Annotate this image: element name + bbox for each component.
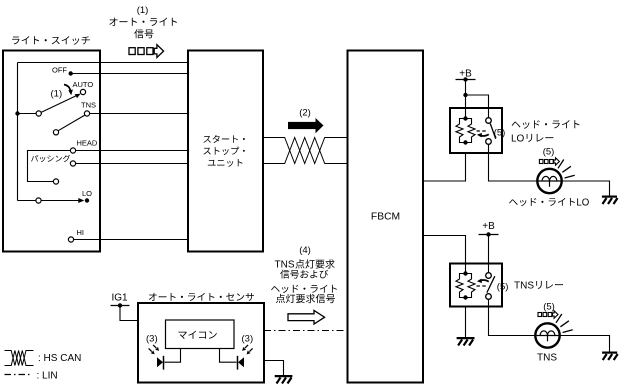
svg-text:(5): (5) [497, 282, 509, 293]
switch wiper arm to AUTO with arrowhead [41, 94, 81, 113]
junction dot +B branch [463, 93, 467, 97]
wire: lamp1 to ground [562, 181, 610, 196]
+B node dot (relay1) [463, 77, 467, 81]
svg-text:(2): (2) [299, 108, 311, 119]
wire: FBCM to relay2 coil [423, 236, 466, 272]
switch wiper pivot contact [36, 111, 41, 116]
svg-text:IG1: IG1 [112, 293, 129, 304]
relay1 switch fixed contact top [486, 118, 492, 124]
left photodiode light arrows [149, 345, 160, 355]
FBCM box [348, 51, 424, 383]
IG1 node dot [118, 303, 122, 307]
left photodiode [157, 356, 164, 370]
relay2 switch arm [487, 276, 495, 292]
svg-text:FBCM: FBCM [371, 212, 400, 223]
relay2 coil top node [463, 271, 467, 275]
label: auto light (o-to raito) [109, 18, 177, 26]
relay2 coil (parallel zigzags) [456, 274, 475, 298]
signal symbol small (lamp1) [539, 158, 559, 165]
contact TNS [84, 111, 89, 116]
contact OFF (closed dot) [69, 71, 73, 75]
lamp1 bulb circle [537, 169, 561, 193]
HS CAN twisted pair line A [263, 138, 348, 164]
passing pivot contact [53, 179, 58, 184]
svg-text:(5): (5) [543, 302, 555, 313]
relay1 coil (parallel zigzags) [456, 119, 475, 143]
svg-text:TNS: TNS [275, 260, 295, 271]
relay1 switch arm [490, 124, 495, 139]
label: auto light sensor [149, 293, 254, 301]
svg-text:HI: HI [77, 228, 85, 237]
label: TNS relay [514, 281, 563, 292]
+B bar (relay2) [479, 234, 499, 236]
wire: IG1 to sensor box [120, 306, 138, 321]
label: signal and (shingou oyobi) [280, 270, 328, 279]
legend LIN line (dash-dot) [5, 374, 32, 376]
wire: bus to wiper pivot [18, 113, 37, 115]
label: stop (sutoppu) line2 [203, 147, 244, 155]
start-stop unit box [188, 51, 263, 252]
lamp2 light rays [556, 314, 573, 333]
svg-text:(3): (3) [242, 334, 254, 345]
contact AUTO [80, 89, 85, 94]
svg-text:LO: LO [511, 134, 525, 145]
svg-text:+B: +B [482, 221, 495, 232]
ground sensor [275, 376, 293, 383]
wire: bus corner to LO pivot [18, 200, 36, 202]
+B bar (relay1) [456, 79, 476, 81]
auto-light signal symbol (squares + arrow) [129, 45, 164, 58]
lamp2 filament [535, 331, 559, 341]
relay2 switch fixed contact bottom [486, 294, 492, 300]
contact passing [70, 161, 75, 166]
wire: OFF to start-stop unit [71, 73, 188, 75]
relay2 box [450, 264, 502, 307]
svg-text:(4): (4) [299, 245, 311, 256]
relay2 switch fixed contact top [486, 273, 492, 279]
hollow arrow (4) [288, 310, 325, 324]
label: headlight (4) line3 [271, 285, 337, 293]
svg-text:(5): (5) [494, 128, 506, 139]
relay1 coil bottom node [463, 140, 467, 144]
wire: HEAD to start-stop unit [76, 150, 188, 152]
wire: lamp2 to ground [560, 336, 610, 352]
wire: passing to start-stop unit [76, 163, 188, 165]
relay1 box [450, 108, 502, 153]
wire: common bus vertical [17, 63, 19, 201]
contact HI [68, 237, 73, 242]
LO pivot contact [36, 198, 41, 203]
label passing (passhingu) [31, 155, 70, 162]
label: unit (yunitto) line3 [208, 159, 243, 167]
ground relay2 [457, 338, 475, 345]
LO wiper arm with arrowhead [41, 198, 84, 203]
HS CAN twisted pair line B [263, 138, 348, 164]
label: headlight LO relay line1 [512, 120, 580, 129]
junction dot on bus [15, 111, 19, 115]
lamp1 light rays [558, 160, 575, 179]
lamp1 filament [537, 176, 561, 186]
contact HEAD [70, 148, 75, 153]
ground lamp2 [602, 353, 618, 360]
label: signal (shingou) [134, 29, 153, 38]
label: light switch (raito suicchi) [12, 36, 90, 45]
svg-text:OFF: OFF [52, 66, 67, 75]
black arrow (2) [288, 118, 324, 133]
second wiper pivot [53, 130, 58, 135]
relay1 actuation curved arrow [477, 133, 489, 138]
label: lighting request signal line4 [276, 294, 335, 303]
svg-text:(1): (1) [137, 5, 149, 16]
wire: common feed to start-stop unit [18, 62, 189, 64]
wire: relay2 coil to ground [465, 307, 467, 338]
label: microcomputer (maikon) [179, 331, 217, 339]
svg-text:: LIN: : LIN [37, 371, 58, 382]
svg-text:LO: LO [576, 198, 589, 209]
svg-text:(1): (1) [51, 89, 63, 100]
svg-text:TNS: TNS [514, 281, 534, 292]
wire: TNS to start-stop unit [90, 113, 188, 115]
relay1 coil top node [463, 116, 467, 120]
relay2 coil bottom node [463, 295, 467, 299]
wire: HI to start-stop unit [74, 239, 188, 241]
label: TNS lighting request [275, 259, 335, 270]
wire: relay1 coil to FBCM [423, 153, 466, 181]
svg-text:HEAD: HEAD [77, 139, 98, 148]
svg-text:AUTO: AUTO [73, 80, 94, 89]
relay1 switch fixed contact bottom [486, 139, 492, 145]
auto light sensor box [138, 303, 264, 383]
second wiper arm [58, 115, 85, 131]
label: start (sutato) line1 [203, 135, 244, 143]
right photodiode [238, 356, 245, 370]
svg-text:LO: LO [82, 189, 92, 198]
wire: relay2 switch to lamp2 [489, 299, 536, 335]
IG1 bar [111, 305, 130, 307]
LIN line sensor to FBCM (dash-dot) [264, 330, 348, 332]
svg-text:(3): (3) [146, 334, 158, 345]
rotation arrow (1) [64, 85, 73, 96]
wire: +B to relay2 switch [488, 235, 490, 273]
relay2 actuation curved arrow [477, 279, 489, 284]
microcomputer (maikon) box [166, 320, 235, 349]
+B node dot (relay2) [486, 232, 490, 236]
wire: +B down to coil [465, 80, 467, 118]
svg-text:(5): (5) [543, 147, 555, 158]
wire: maikon to right photodiode [220, 349, 237, 363]
right photodiode light arrows [242, 345, 253, 355]
contact LO (closed dot) [85, 198, 89, 202]
relay2 actuation dashes [477, 285, 487, 287]
signal symbol small (lamp2) [538, 311, 558, 318]
wire: HEAD to passing pivot (L shape) [28, 151, 71, 182]
light switch box [3, 51, 100, 252]
label: headlight LO relay line2 [511, 134, 553, 145]
relay1 actuation dashes [477, 130, 487, 132]
legend HS CAN symbol [5, 351, 34, 366]
wire: sensor box to ground [264, 361, 284, 376]
svg-text:TNS: TNS [537, 353, 557, 364]
lamp2 bulb circle [535, 323, 559, 347]
wire: +B branch to relay1 switch [466, 95, 489, 118]
svg-text:: HS CAN: : HS CAN [38, 353, 81, 364]
wire: relay1 switch to lamp [489, 144, 538, 181]
ground lamp1 [602, 197, 618, 204]
wire: maikon to left photodiode [165, 349, 181, 363]
svg-text:TNS: TNS [81, 101, 96, 110]
label: headlight LO (lamp1) [509, 198, 590, 209]
